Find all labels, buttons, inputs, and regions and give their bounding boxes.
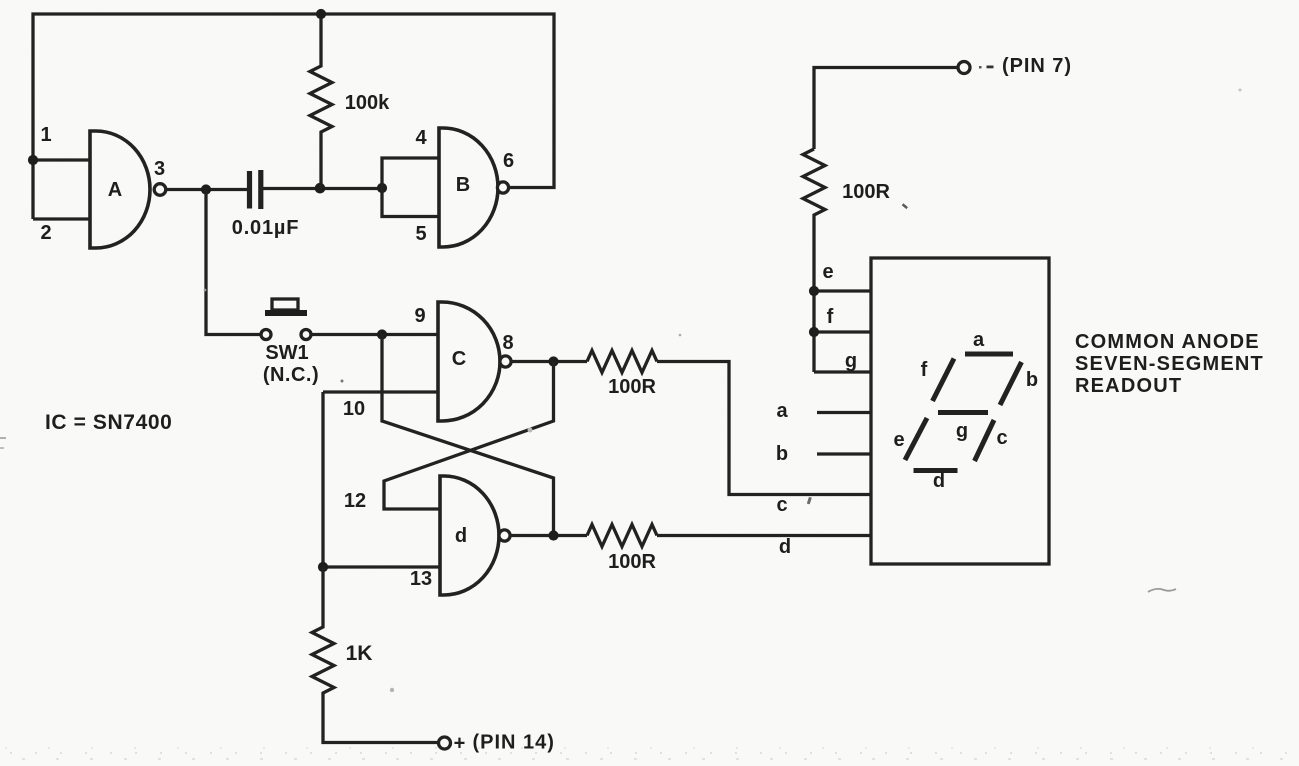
wire: A output branch down to switch SW1	[206, 190, 261, 335]
node: junction A output / switch branch	[201, 184, 211, 194]
svg-text:4: 4	[415, 127, 427, 149]
svg-text:9: 9	[414, 305, 425, 327]
svg-text:e: e	[893, 429, 904, 451]
wire: 100R to d input	[657, 534, 871, 537]
NAND gate C body	[438, 302, 500, 421]
svg-text:12: 12	[344, 490, 366, 512]
segment g bar	[938, 410, 988, 415]
resistor R3 100R bottom	[587, 525, 657, 547]
resistor R4 1K vertical	[312, 567, 438, 743]
wire: a stub	[817, 411, 871, 414]
svg-text:(PIN 7): (PIN 7)	[1002, 55, 1072, 77]
label - (PIN 7)	[979, 66, 982, 69]
svg-text:100R: 100R	[608, 551, 656, 573]
svg-text:6: 6	[503, 150, 514, 172]
NAND gate C output bubble	[500, 356, 511, 367]
svg-text:a: a	[973, 329, 985, 351]
svg-text:c: c	[996, 427, 1007, 449]
svg-text:f: f	[921, 359, 928, 381]
svg-text:COMMON ANODE: COMMON ANODE	[1075, 331, 1260, 353]
segment f bar	[933, 359, 955, 402]
seven-segment display U1 box	[871, 258, 1049, 564]
svg-text:(PIN 14): (PIN 14)	[473, 732, 555, 754]
wire: long vertical pin10 to pin13	[321, 392, 324, 567]
NAND gate B output bubble	[497, 182, 508, 193]
resistor R5 100R vertical right	[803, 149, 825, 220]
switch SW1 left terminal	[261, 330, 271, 340]
svg-text:C: C	[452, 348, 466, 370]
wire: switch to gate C pin 9	[311, 333, 438, 336]
svg-text:d: d	[933, 470, 945, 492]
svg-text:13: 13	[410, 568, 432, 590]
NAND gate d body	[440, 476, 499, 595]
svg-text:d: d	[779, 536, 791, 558]
segment e bar	[905, 418, 927, 460]
switch SW1 pushbutton base bar	[265, 310, 307, 316]
terminal: + (PIN 14)	[439, 737, 451, 749]
node: junction pin 13 / 1K	[318, 562, 328, 572]
segment c bar	[975, 420, 995, 461]
switch SW1 right terminal	[301, 330, 311, 340]
svg-text:c: c	[776, 494, 787, 516]
wire: top right to PIN 7	[814, 68, 958, 150]
switch SW1 pushbutton cap	[272, 299, 298, 310]
wire: 100R to c input	[657, 362, 871, 495]
svg-text:b: b	[1026, 369, 1038, 391]
wire: f stub	[814, 330, 871, 333]
segment a bar	[965, 352, 1013, 357]
node: junction top bus / 100k	[316, 9, 326, 19]
svg-text:5: 5	[415, 223, 426, 245]
svg-text:a: a	[776, 400, 788, 422]
svg-text:f: f	[827, 306, 834, 328]
svg-text:SW1: SW1	[265, 342, 308, 364]
node: junction e	[809, 286, 819, 296]
svg-text:+: +	[454, 733, 466, 755]
NAND gate A body	[90, 131, 150, 248]
svg-text:10: 10	[343, 398, 365, 420]
NAND gate B body	[439, 128, 498, 247]
wire: g stub	[814, 370, 871, 373]
node: junction pin 9 / feedback	[377, 329, 387, 339]
terminal: - (PIN 7)	[958, 62, 970, 74]
wire: gate C output	[511, 360, 587, 363]
svg-text:8: 8	[502, 332, 513, 354]
segment b bar	[1000, 362, 1022, 405]
node: junction gate C output	[548, 356, 558, 366]
svg-text:100R: 100R	[608, 376, 656, 398]
svg-text:SEVEN-SEGMENT: SEVEN-SEGMENT	[1075, 353, 1264, 375]
wire: feedback from gate d output to gate C input (cross link)	[382, 335, 554, 536]
svg-text:100k: 100k	[345, 92, 390, 114]
svg-text:B: B	[456, 174, 470, 196]
svg-text:g: g	[845, 350, 857, 372]
svg-text:READOUT: READOUT	[1075, 375, 1182, 397]
node: junction f	[809, 327, 819, 337]
svg-text:2: 2	[40, 222, 51, 244]
wire: gate A output to capacitor	[166, 188, 247, 191]
svg-text:e: e	[822, 261, 833, 283]
wire: gate C pin 10 stub	[323, 390, 438, 393]
wire: b stub	[817, 452, 871, 455]
svg-text:(N.C.): (N.C.)	[263, 364, 319, 386]
svg-text:1: 1	[40, 124, 51, 146]
node: junction gate d output	[548, 530, 558, 540]
capacitor C1 0.01uF plates	[250, 170, 261, 209]
svg-text:IC = SN7400: IC = SN7400	[45, 411, 172, 434]
node: junction left vertical / pin 1	[28, 155, 38, 165]
NAND gate A output bubble	[154, 184, 166, 196]
svg-text:A: A	[108, 179, 122, 201]
wire: pin 1 stub	[33, 158, 91, 161]
svg-text:0.01µF: 0.01µF	[232, 217, 299, 239]
wire: gate d output	[510, 534, 587, 537]
node: junction 100k bottom	[315, 183, 326, 194]
resistor R2 100R top	[587, 351, 657, 373]
node: junction gate B input	[377, 183, 387, 193]
svg-text:1K: 1K	[346, 642, 373, 665]
resistor R1 100k vertical	[310, 14, 332, 189]
svg-text:g: g	[956, 420, 968, 442]
segment d bar	[914, 468, 958, 473]
svg-text:d: d	[455, 525, 467, 547]
wire: capacitor to gate B input junction	[263, 187, 382, 190]
wire: gate B input bracket	[382, 158, 439, 217]
svg-text:100R: 100R	[842, 181, 890, 203]
wire: gate d pin 13 stub	[323, 565, 440, 568]
svg-text:3: 3	[154, 158, 165, 180]
wire: top feedback bus from gate B output	[33, 14, 554, 219]
wire: e stub	[814, 289, 871, 292]
wire: pin 2 stub	[33, 217, 91, 220]
NAND gate d output bubble	[499, 530, 510, 541]
wire: 100R down to segment g corner	[812, 220, 815, 372]
svg-text:b: b	[776, 443, 788, 465]
wire: gate C output to gate d pin 12 (cross link)	[384, 362, 554, 510]
